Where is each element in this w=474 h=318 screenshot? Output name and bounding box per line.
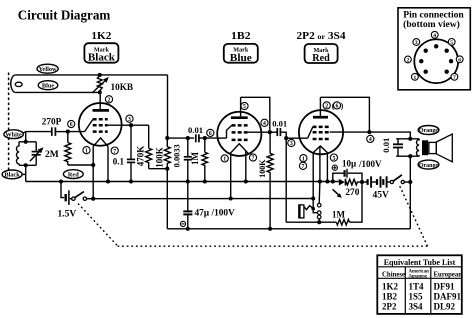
socket pin number 6 (456, 56, 463, 64)
loudspeaker (429, 134, 452, 162)
V1 plate wire to detector loads (node 3) (108, 123, 149, 127)
AF coupling wire (node at 0.0033) (167, 136, 194, 140)
mark box Black (84, 43, 118, 63)
svg-text:1B2: 1B2 (382, 292, 398, 302)
switch S2 (B battery) (390, 175, 412, 184)
label Red (63, 170, 83, 179)
svg-text:2M: 2M (45, 150, 59, 160)
svg-text:45V: 45V (373, 190, 390, 200)
svg-text:2: 2 (407, 58, 410, 64)
svg-text:47µ: 47µ (195, 209, 210, 219)
svg-text:7: 7 (252, 156, 255, 162)
svg-text:European: European (434, 272, 463, 279)
electrolytic capacitor 10u/100V with plus mark (332, 158, 382, 184)
V2 pin7 lead down to bus (244, 151, 248, 184)
svg-text:1.5V: 1.5V (58, 210, 77, 220)
wire node4 to output network (369, 132, 412, 141)
svg-text:1S5: 1S5 (409, 292, 424, 302)
wire V3 grid into tube (286, 137, 307, 139)
electrolytic capacitor 47u/100V (183, 209, 235, 231)
svg-text:4: 4 (369, 137, 372, 143)
svg-text:Red: Red (312, 53, 330, 64)
svg-text:Yellow: Yellow (39, 66, 57, 73)
variable capacitor C1 (tuning) (30, 142, 44, 166)
battery 1.5V with switch S1 (58, 182, 96, 220)
svg-text:10µ: 10µ (342, 158, 357, 168)
svg-text:100K: 100K (155, 147, 165, 168)
svg-text:Japanese: Japanese (409, 274, 428, 279)
svg-text:10KB: 10KB (111, 82, 133, 92)
socket pin number 1 (412, 73, 419, 81)
wire 100K junction down to bottom bus (166, 169, 168, 229)
svg-text:1: 1 (414, 75, 417, 81)
svg-text:0.01: 0.01 (272, 118, 287, 128)
node label 1 (V3) (300, 155, 307, 163)
mark box Blue (224, 44, 258, 64)
svg-text:3S4: 3S4 (409, 302, 424, 312)
capacitor 0.1 (113, 125, 135, 183)
svg-text:3: 3 (128, 117, 131, 123)
svg-text:1T4: 1T4 (409, 282, 425, 292)
main common bus (B-) (26, 179, 339, 183)
vacuum tube V3 2P2/3S4 (299, 110, 343, 154)
annotation arrow (333, 189, 342, 198)
svg-text:7: 7 (453, 75, 456, 81)
potentiometer 10KB (regeneration control) (92, 73, 109, 95)
node label 6 (V2 grid) (207, 129, 214, 137)
label Yellow (37, 64, 58, 73)
svg-text:1K2: 1K2 (382, 282, 399, 292)
vacuum tube V2 1B2 (217, 112, 261, 156)
pin connection box (398, 8, 470, 90)
V2 screen wire out (row2) (248, 131, 270, 133)
svg-text:6: 6 (70, 122, 73, 128)
V3 screen wire out (row2) to node 4 (330, 131, 370, 133)
label Orange (bottom) (418, 160, 439, 169)
svg-text:White: White (5, 131, 22, 138)
tube type label 2P2 or 3S4 (297, 31, 346, 42)
wire 0.0033 junction through 47u (187, 182, 189, 212)
diode D1 (339, 179, 346, 186)
svg-text:6: 6 (458, 57, 461, 63)
svg-text:/100V: /100V (358, 159, 382, 169)
capacitor 0.01 (tone, across primary) (381, 138, 403, 157)
svg-text:4: 4 (433, 33, 436, 39)
node label 7 (V3) (299, 162, 306, 170)
node label 5 (V2 plate) (241, 102, 248, 110)
capacitor 0.01 (coupling to V2) (188, 125, 218, 143)
wire 2M bottom to filament return (68, 163, 95, 167)
svg-text:270: 270 (345, 188, 359, 198)
V1 plate bar (93, 92, 110, 110)
svg-text:1: 1 (85, 148, 88, 154)
svg-text:(bottom view): (bottom view) (403, 19, 460, 30)
output transformer T1 (417, 139, 429, 156)
svg-text:5: 5 (243, 104, 246, 110)
svg-text:DAF91: DAF91 (434, 292, 462, 302)
equivalent tube list table (377, 255, 462, 314)
node label 1 (V1) (83, 147, 90, 155)
bottom return bus (167, 228, 410, 230)
node label 2 (V1 plate) (105, 96, 112, 104)
svg-text:5: 5 (332, 156, 335, 162)
svg-text:1M: 1M (332, 209, 346, 219)
socket pin number 3 (413, 39, 420, 47)
node label 5 (V3) (330, 154, 337, 162)
svg-text:270P: 270P (42, 117, 62, 127)
svg-text:6: 6 (336, 104, 339, 110)
svg-text:1: 1 (302, 156, 305, 162)
node label 3 (V1) (126, 115, 133, 123)
V1 pin7 lead down to bus (106, 146, 110, 183)
svg-text:100K: 100K (258, 159, 267, 178)
node label 7 (V2) (249, 154, 256, 162)
wire grid node into tube V1 (68, 131, 85, 133)
tube socket circle (bottom view) (414, 39, 458, 83)
svg-text:0.01: 0.01 (381, 138, 391, 153)
svg-text:): ) (341, 101, 344, 110)
V2 plate top wire to node 4 (241, 97, 272, 134)
V1 pin1 lead down (92, 146, 94, 198)
svg-text:Red: Red (68, 171, 79, 178)
headphone jack J1 (299, 205, 315, 218)
svg-text:3: 3 (290, 141, 293, 147)
V1 filament (93, 138, 108, 147)
svg-text:7: 7 (113, 149, 116, 155)
label White (4, 130, 26, 139)
socket pin dots (419, 44, 453, 74)
svg-text:5: 5 (450, 40, 453, 46)
socket pin number 7 (451, 73, 458, 81)
node tank top junction (24, 132, 28, 144)
svg-text:Equivalent Tube List: Equivalent Tube List (384, 258, 456, 267)
V2 grid dashes (227, 125, 248, 139)
tuning coil L2 (16, 142, 19, 166)
node label 4 (output) (367, 135, 374, 143)
svg-text:3: 3 (415, 40, 418, 46)
wire from loop top to detector chain (167, 75, 169, 138)
resistor 1M (V2 grid leak) (190, 136, 208, 184)
svg-text:2: 2 (108, 98, 111, 104)
svg-text:Black: Black (88, 53, 115, 64)
svg-text:0.1: 0.1 (113, 156, 125, 166)
vacuum tube V1 1K2 (79, 103, 122, 146)
output rails (396, 139, 419, 156)
wire V2 grid into tube (218, 137, 227, 139)
svg-text:6: 6 (209, 131, 212, 137)
svg-text:Orange: Orange (419, 163, 439, 169)
capacitor 270P (grid coupling) (42, 117, 62, 136)
node label 2(6) (V3 plate) (323, 101, 344, 110)
V3 filament (313, 146, 327, 153)
svg-text:Blue: Blue (230, 53, 252, 64)
ganged switch linkage (dashed) (78, 185, 428, 247)
minus terminal mark (180, 221, 185, 226)
svg-text:0.0033: 0.0033 (173, 144, 182, 167)
resistor 470K (136, 125, 168, 169)
capacitor 0.01 (coupling to V3) (270, 118, 288, 140)
svg-text:Orange: Orange (419, 128, 439, 134)
V2 plate bar (231, 97, 248, 117)
socket pin number 4 (431, 31, 438, 39)
svg-text:1B2: 1B2 (231, 31, 251, 42)
V2 filament (230, 144, 249, 154)
svg-text:2P2: 2P2 (382, 302, 397, 312)
wire output rail down to battery and bottom bus (408, 154, 412, 229)
svg-text:/100V: /100V (211, 209, 236, 219)
svg-text:1M: 1M (190, 152, 200, 166)
title Circuit Diagram (18, 8, 111, 23)
svg-text:2P2 or 3S4: 2P2 or 3S4 (297, 31, 346, 42)
value label 10KB (111, 82, 133, 92)
svg-text:Circuit Diagram: Circuit Diagram (18, 8, 111, 23)
V3 plate bar (313, 97, 328, 117)
V3 grid return wire (286, 138, 319, 222)
filament supply bus (A+) (93, 198, 313, 200)
resistor 100K (V2 load, to bottom bus) (258, 132, 273, 231)
socket pin number 5 (448, 39, 455, 47)
capacitor 0.0033 (173, 138, 192, 181)
svg-text:0.01: 0.01 (188, 125, 203, 135)
battery 45V (362, 176, 390, 200)
resistor 100K (detector load) (155, 136, 171, 171)
mark box Red (305, 44, 338, 64)
resistor 1M (output grid leak) (319, 182, 362, 225)
V3 pin1 lead down (filament +) (311, 153, 315, 209)
V3 pin5 lead down to bus (325, 153, 329, 184)
wire white to grid cap (26, 131, 68, 133)
wire tank bottom to ground bus (25, 165, 27, 181)
V1 grid dashes (85, 119, 108, 131)
resistor 2M (grid leak) (45, 132, 71, 165)
jack contact circles (313, 182, 321, 225)
svg-text:Black: Black (4, 172, 20, 179)
svg-text:1K2: 1K2 (91, 31, 111, 42)
svg-text:470K: 470K (136, 146, 146, 167)
antenna rod (dashed) (8, 73, 10, 171)
resistor 270 (345, 179, 362, 198)
label Orange (top) (418, 126, 439, 135)
tube type label 1K2 (91, 31, 111, 42)
tube type label 1B2 (231, 31, 251, 42)
socket pin number 2 (405, 56, 412, 64)
V3 plate top wire to output node 4 (320, 97, 371, 134)
svg-text:Blue: Blue (42, 82, 54, 89)
node label 4 (V2) (261, 119, 268, 127)
svg-text:2: 2 (325, 104, 328, 110)
V3 grid dashes (308, 127, 330, 139)
node 6 grid of V1 (66, 120, 75, 133)
svg-text:Chinese: Chinese (382, 272, 405, 279)
V3 centre tap lead down to bus (318, 147, 322, 184)
V2 pin1 lead down to A+ bus (229, 153, 233, 201)
tuning tank wires (19, 142, 36, 168)
svg-text:DL92: DL92 (434, 302, 456, 312)
label Blue (38, 81, 58, 90)
svg-text:7: 7 (302, 164, 305, 170)
loop antenna coil L1 (11, 75, 168, 93)
node label 3 (V3 grid) (288, 139, 295, 147)
svg-text:4: 4 (263, 121, 266, 127)
svg-text:1: 1 (223, 157, 226, 163)
label Black (2, 170, 26, 179)
node label 1 (V2) (221, 155, 228, 163)
svg-text:DF91: DF91 (434, 282, 455, 292)
node label 7 (V1) (111, 147, 118, 155)
